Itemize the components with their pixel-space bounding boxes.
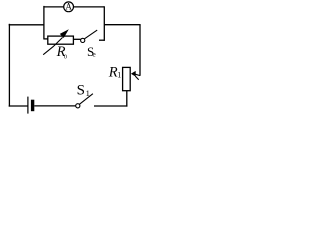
svg-text:R: R	[108, 65, 118, 81]
svg-text:1: 1	[117, 71, 121, 80]
svg-text:S: S	[77, 83, 85, 99]
svg-text:0: 0	[64, 54, 67, 60]
svg-text:e: e	[92, 50, 96, 59]
svg-text:1: 1	[86, 88, 90, 98]
svg-text:A: A	[65, 1, 72, 11]
